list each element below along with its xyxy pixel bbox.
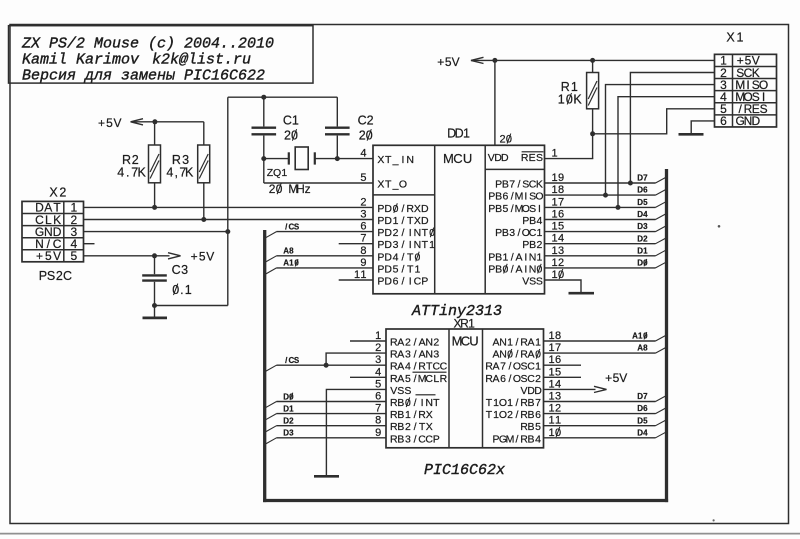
svg-text:V: V <box>53 249 61 263</box>
svg-text:5: 5 <box>555 366 561 378</box>
svg-text:O: O <box>535 191 543 203</box>
svg-text:6: 6 <box>720 114 727 128</box>
svg-text:C: C <box>358 114 367 128</box>
svg-text:K: K <box>536 179 543 191</box>
svg-text:2: 2 <box>536 239 542 251</box>
svg-text:P: P <box>377 251 384 263</box>
svg-text:K: K <box>573 92 582 106</box>
svg-text:.: . <box>180 283 183 297</box>
svg-text:N: N <box>499 337 507 349</box>
svg-text:X: X <box>414 203 421 215</box>
svg-text:B: B <box>502 227 509 239</box>
svg-text:I: I <box>524 191 527 203</box>
svg-text:P: P <box>377 227 384 239</box>
svg-text:6: 6 <box>393 276 399 288</box>
svg-text:T: T <box>407 251 414 263</box>
svg-text:P: P <box>377 239 384 251</box>
svg-text:8: 8 <box>555 330 561 342</box>
svg-text:Kamil Karimov: Kamil Karimov <box>22 52 140 69</box>
svg-text:/: / <box>414 337 417 349</box>
svg-text:A: A <box>397 361 404 373</box>
svg-text:T: T <box>385 179 392 191</box>
svg-text:6: 6 <box>643 186 648 195</box>
svg-text:,: , <box>174 166 177 180</box>
svg-text:2: 2 <box>643 234 648 243</box>
svg-text:X: X <box>426 421 433 433</box>
svg-text:D: D <box>384 251 392 263</box>
svg-text:/: / <box>401 239 404 251</box>
svg-text:1: 1 <box>552 245 558 257</box>
svg-text:B: B <box>527 397 534 409</box>
svg-text:1: 1 <box>555 415 561 427</box>
svg-text:S: S <box>294 222 300 231</box>
svg-text:C: C <box>425 373 433 385</box>
svg-text:/: / <box>414 349 417 361</box>
svg-text:O: O <box>499 397 507 409</box>
svg-text:B: B <box>397 433 404 445</box>
svg-text:_: _ <box>392 154 399 166</box>
svg-text:B: B <box>495 191 502 203</box>
svg-text:R: R <box>440 373 448 385</box>
svg-text:/: / <box>516 349 519 361</box>
svg-text:2: 2 <box>360 196 366 208</box>
svg-text:8: 8 <box>289 247 294 256</box>
svg-text:A: A <box>527 337 534 349</box>
svg-text:/: / <box>516 409 519 421</box>
svg-text:B: B <box>529 239 536 251</box>
svg-text:1: 1 <box>552 148 558 160</box>
svg-text:1: 1 <box>549 415 555 427</box>
svg-text:+: + <box>437 55 444 69</box>
svg-text:M: M <box>506 433 515 445</box>
svg-text:M: M <box>515 191 524 203</box>
svg-text:N: N <box>425 349 433 361</box>
svg-text:T: T <box>422 227 429 239</box>
svg-text:M: M <box>443 151 454 166</box>
svg-text:7: 7 <box>558 196 564 208</box>
svg-text:K: K <box>138 166 147 180</box>
svg-text:D: D <box>421 203 429 215</box>
svg-text:I: I <box>409 276 412 288</box>
svg-text:7: 7 <box>643 392 648 401</box>
svg-text:T: T <box>486 397 493 409</box>
svg-text:2: 2 <box>375 342 381 354</box>
svg-text:PIC16C62x: PIC16C62x <box>424 462 505 479</box>
svg-text:4: 4 <box>643 210 648 219</box>
svg-text:C: C <box>283 114 292 128</box>
svg-text:A: A <box>527 349 534 361</box>
svg-text:1: 1 <box>552 233 558 245</box>
svg-text:B: B <box>527 433 534 445</box>
svg-text:C: C <box>63 269 72 283</box>
svg-text:L: L <box>433 373 439 385</box>
svg-text:1: 1 <box>552 269 558 281</box>
svg-text:8: 8 <box>643 344 648 353</box>
svg-text:4: 4 <box>375 366 381 378</box>
svg-text:D: D <box>421 215 429 227</box>
svg-text:7: 7 <box>555 342 561 354</box>
svg-text:1: 1 <box>536 227 542 239</box>
svg-text:7: 7 <box>500 361 506 373</box>
svg-text:I: I <box>401 154 404 166</box>
svg-text:V: V <box>206 250 214 264</box>
svg-text:E: E <box>529 152 536 164</box>
svg-text:4: 4 <box>360 148 366 160</box>
svg-text:7: 7 <box>509 179 515 191</box>
svg-text:P: P <box>377 263 384 275</box>
svg-text:1: 1 <box>552 184 558 196</box>
svg-text:1: 1 <box>549 427 555 439</box>
svg-text:2: 2 <box>56 269 63 283</box>
svg-text:V: V <box>113 116 121 130</box>
svg-text:/: / <box>401 227 404 239</box>
svg-text:4: 4 <box>536 215 542 227</box>
svg-text:/: / <box>509 361 512 373</box>
svg-text:1: 1 <box>292 114 299 128</box>
svg-text:4: 4 <box>555 378 561 390</box>
svg-text:1: 1 <box>354 269 360 281</box>
svg-text:B: B <box>397 421 404 433</box>
svg-text:/: / <box>414 361 417 373</box>
svg-text:P: P <box>39 269 47 283</box>
svg-text:1: 1 <box>507 337 513 349</box>
svg-text:2: 2 <box>500 134 506 146</box>
svg-text:1: 1 <box>558 92 565 106</box>
svg-text:/: / <box>414 421 417 433</box>
svg-text:z: z <box>305 182 311 196</box>
svg-text:T: T <box>407 263 414 275</box>
svg-text:1: 1 <box>552 209 558 221</box>
svg-text:3: 3 <box>393 239 399 251</box>
svg-text:5: 5 <box>106 116 113 130</box>
svg-text:2: 2 <box>558 257 564 269</box>
svg-text:A: A <box>492 361 499 373</box>
svg-text:T: T <box>433 397 440 409</box>
svg-text:N: N <box>414 239 422 251</box>
svg-text:.: . <box>126 166 129 180</box>
svg-text:1: 1 <box>552 172 558 184</box>
svg-text:4: 4 <box>393 251 399 263</box>
svg-text:I: I <box>524 251 527 263</box>
svg-text:1: 1 <box>281 167 287 179</box>
svg-text:A: A <box>515 251 522 263</box>
svg-text:1: 1 <box>552 196 558 208</box>
svg-text:/: / <box>518 227 521 239</box>
svg-text:N: N <box>425 397 433 409</box>
svg-text:3: 3 <box>643 222 648 231</box>
svg-text:3: 3 <box>509 227 515 239</box>
svg-text:I: I <box>409 239 412 251</box>
svg-text:/: / <box>518 179 521 191</box>
svg-text:A: A <box>492 373 499 385</box>
svg-text:T: T <box>486 409 493 421</box>
svg-text:1: 1 <box>549 330 555 342</box>
svg-text:U: U <box>469 334 478 349</box>
svg-text:1: 1 <box>463 127 470 141</box>
svg-text:C: C <box>172 263 181 277</box>
svg-text:N: N <box>529 263 537 275</box>
svg-text:2: 2 <box>405 337 411 349</box>
svg-text:1: 1 <box>185 283 192 297</box>
svg-text:B: B <box>495 251 502 263</box>
svg-text:Q: Q <box>273 167 281 179</box>
svg-text:S: S <box>47 269 55 283</box>
svg-text:T: T <box>385 154 392 166</box>
svg-text:1: 1 <box>549 391 555 403</box>
svg-text:K: K <box>185 166 194 180</box>
svg-text:3: 3 <box>555 391 561 403</box>
svg-text:/: / <box>401 251 404 263</box>
svg-text:A: A <box>397 337 404 349</box>
svg-text:D: D <box>534 385 542 397</box>
svg-text:5: 5 <box>70 249 77 263</box>
svg-text:6: 6 <box>535 409 541 421</box>
svg-text:/: / <box>516 397 519 409</box>
svg-text:1: 1 <box>375 330 381 342</box>
svg-text:N: N <box>414 227 422 239</box>
svg-text:X: X <box>726 31 735 45</box>
svg-text:D: D <box>384 263 392 275</box>
svg-text:D: D <box>384 276 392 288</box>
svg-text:2: 2 <box>269 182 276 196</box>
svg-text:P: P <box>377 215 384 227</box>
svg-text:k2k@list.ru: k2k@list.ru <box>152 52 251 69</box>
svg-text:B: B <box>397 409 404 421</box>
svg-text:1: 1 <box>360 269 366 281</box>
svg-text:2: 2 <box>393 227 399 239</box>
svg-text:B: B <box>527 421 534 433</box>
svg-text:X: X <box>414 215 421 227</box>
svg-text:/: / <box>401 215 404 227</box>
svg-text:1: 1 <box>552 221 558 233</box>
svg-text:5: 5 <box>558 221 564 233</box>
svg-text:2: 2 <box>359 128 366 142</box>
svg-text:C: C <box>453 151 462 166</box>
svg-text:4: 4 <box>643 428 648 437</box>
svg-text:S: S <box>760 102 768 116</box>
svg-text:P: P <box>377 276 384 288</box>
svg-text:1: 1 <box>535 337 541 349</box>
svg-text:P: P <box>433 433 440 445</box>
svg-text:1: 1 <box>536 251 542 263</box>
svg-text:5: 5 <box>360 172 366 184</box>
svg-text:1: 1 <box>535 361 541 373</box>
svg-text:8: 8 <box>360 245 366 257</box>
svg-text:1: 1 <box>393 215 399 227</box>
svg-text:6: 6 <box>375 391 381 403</box>
svg-text:_: _ <box>392 179 399 191</box>
svg-text:4: 4 <box>558 233 564 245</box>
svg-text:+: + <box>36 249 43 263</box>
svg-text:1: 1 <box>549 342 555 354</box>
svg-text:/: / <box>401 263 404 275</box>
svg-text:6: 6 <box>500 373 506 385</box>
svg-text:/: / <box>511 203 514 215</box>
svg-text:1: 1 <box>289 404 294 413</box>
svg-text:5: 5 <box>375 378 381 390</box>
svg-text:6: 6 <box>555 354 561 366</box>
svg-text:2: 2 <box>555 403 561 415</box>
svg-text:A: A <box>515 263 522 275</box>
svg-text:/: / <box>511 251 514 263</box>
svg-text:3: 3 <box>289 429 294 438</box>
svg-text:Версия для замены PIC16C622: Версия для замены PIC16C622 <box>22 68 265 85</box>
svg-text:B: B <box>529 215 536 227</box>
svg-text:2: 2 <box>59 186 66 200</box>
svg-text:1: 1 <box>643 246 648 255</box>
svg-text:+: + <box>191 250 198 264</box>
svg-text:1: 1 <box>502 251 508 263</box>
svg-text:8: 8 <box>558 184 564 196</box>
svg-text:1: 1 <box>414 263 420 275</box>
svg-text:8: 8 <box>375 415 381 427</box>
svg-text:4: 4 <box>166 166 173 180</box>
svg-text:B: B <box>495 263 502 275</box>
svg-text:S: S <box>536 276 543 288</box>
svg-text:B: B <box>397 397 404 409</box>
svg-text:S: S <box>294 356 300 365</box>
svg-text:A: A <box>397 349 404 361</box>
svg-text:7: 7 <box>643 174 648 183</box>
svg-text:4: 4 <box>405 361 411 373</box>
svg-text:T: T <box>422 239 429 251</box>
svg-text:H: H <box>296 182 305 196</box>
svg-text:5: 5 <box>393 263 399 275</box>
svg-text:1: 1 <box>549 366 555 378</box>
svg-text:4: 4 <box>117 166 124 180</box>
svg-text:5: 5 <box>199 250 206 264</box>
svg-text:2: 2 <box>535 373 541 385</box>
svg-text:1: 1 <box>549 378 555 390</box>
svg-text:3: 3 <box>405 349 411 361</box>
svg-text:6: 6 <box>360 221 366 233</box>
svg-text:X: X <box>377 154 384 166</box>
svg-text:N: N <box>529 251 537 263</box>
svg-text:3: 3 <box>360 209 366 221</box>
svg-text:P: P <box>421 276 428 288</box>
svg-text:D: D <box>384 239 392 251</box>
svg-text:/: / <box>414 397 417 409</box>
svg-text:2: 2 <box>405 421 411 433</box>
svg-text:+: + <box>605 371 612 385</box>
svg-text:1: 1 <box>549 403 555 415</box>
svg-text:5: 5 <box>502 203 508 215</box>
svg-text:1: 1 <box>405 409 411 421</box>
svg-text:/: / <box>414 433 417 445</box>
svg-text:D: D <box>751 114 760 128</box>
svg-text:D: D <box>501 152 509 164</box>
svg-text:2: 2 <box>433 337 439 349</box>
svg-text:/: / <box>516 433 519 445</box>
svg-text:I: I <box>524 263 527 275</box>
svg-text:B: B <box>502 179 509 191</box>
svg-text:2: 2 <box>507 409 513 421</box>
svg-text:5: 5 <box>643 416 648 425</box>
svg-text:A: A <box>397 373 404 385</box>
svg-text:1: 1 <box>552 257 558 269</box>
svg-text:5: 5 <box>405 373 411 385</box>
svg-text:B: B <box>495 203 502 215</box>
svg-text:C: C <box>440 361 448 373</box>
svg-text:6: 6 <box>502 191 508 203</box>
svg-text:4: 4 <box>535 433 541 445</box>
svg-text:I: I <box>409 227 412 239</box>
svg-text:9: 9 <box>558 172 564 184</box>
svg-text:3: 3 <box>405 433 411 445</box>
svg-text:D: D <box>384 215 392 227</box>
svg-text:3: 3 <box>181 263 188 277</box>
svg-text:/: / <box>401 203 404 215</box>
svg-text:7: 7 <box>360 233 366 245</box>
svg-text:ZX PS/2 Mouse (c) 2004..2010: ZX PS/2 Mouse (c) 2004..2010 <box>21 35 274 52</box>
svg-text:/: / <box>511 263 514 275</box>
svg-text:3: 3 <box>375 354 381 366</box>
svg-text:N: N <box>406 154 414 166</box>
svg-text:O: O <box>399 179 407 191</box>
svg-text:2: 2 <box>284 128 291 142</box>
svg-text:/: / <box>414 409 417 421</box>
svg-text:V: V <box>619 371 627 385</box>
svg-text:X: X <box>426 409 433 421</box>
svg-text:C: C <box>527 373 535 385</box>
svg-text:I: I <box>421 397 424 409</box>
svg-text:9: 9 <box>375 427 381 439</box>
svg-text:1: 1 <box>468 316 475 330</box>
svg-text:9: 9 <box>360 257 366 269</box>
svg-text:6: 6 <box>643 404 648 413</box>
svg-text:1: 1 <box>507 397 513 409</box>
svg-text:V: V <box>390 385 397 397</box>
svg-text:P: P <box>377 203 384 215</box>
svg-text:X: X <box>49 186 58 200</box>
svg-text:N: N <box>425 337 433 349</box>
svg-text:/: / <box>401 276 404 288</box>
svg-text:7: 7 <box>375 403 381 415</box>
svg-text:X: X <box>377 179 384 191</box>
svg-text:1: 1 <box>737 31 744 45</box>
svg-text:/: / <box>509 373 512 385</box>
svg-text:+: + <box>98 116 105 130</box>
svg-text:1: 1 <box>549 354 555 366</box>
svg-text:2: 2 <box>289 417 294 426</box>
svg-text:1: 1 <box>429 239 435 251</box>
svg-text:C: C <box>527 361 535 373</box>
svg-text:2: 2 <box>367 114 374 128</box>
svg-text:B: B <box>527 409 534 421</box>
svg-text:N: N <box>499 349 507 361</box>
svg-text:5: 5 <box>535 421 541 433</box>
svg-text:S: S <box>536 152 543 164</box>
svg-text:5: 5 <box>643 198 648 207</box>
svg-text:O: O <box>499 409 507 421</box>
svg-text:/: / <box>414 373 417 385</box>
svg-text:7: 7 <box>535 397 541 409</box>
svg-text:D: D <box>384 227 392 239</box>
svg-text:S: S <box>397 385 404 397</box>
svg-text:I: I <box>538 203 541 215</box>
svg-text:5: 5 <box>45 249 52 263</box>
svg-text:/: / <box>511 191 514 203</box>
svg-text:D: D <box>384 203 392 215</box>
svg-text:S: S <box>529 203 536 215</box>
svg-text:6: 6 <box>558 209 564 221</box>
svg-text:V: V <box>452 55 460 69</box>
svg-text:S: S <box>404 385 411 397</box>
svg-text:3: 3 <box>558 245 564 257</box>
svg-text:U: U <box>463 151 472 166</box>
svg-text:/: / <box>516 337 519 349</box>
svg-text:3: 3 <box>433 349 439 361</box>
